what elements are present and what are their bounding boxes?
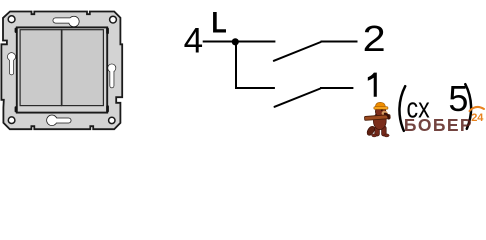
svg-text:L: L: [211, 5, 226, 39]
svg-text:24: 24: [471, 112, 484, 124]
svg-text:БОБЕР: БОБЕР: [404, 115, 473, 135]
svg-text:2: 2: [363, 19, 386, 59]
svg-text:4: 4: [184, 21, 203, 60]
